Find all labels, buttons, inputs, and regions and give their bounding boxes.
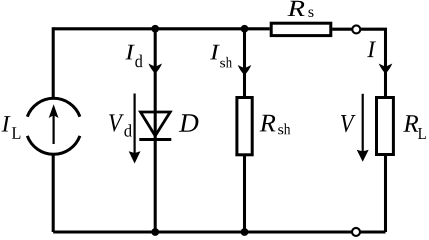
label Rsh: [260, 115, 291, 135]
wire left vertical (source bottom to bottom corner): [52, 155, 55, 232]
wire diode branch vertical: [154, 29, 157, 232]
wire from Rs to top terminal and right corner down to RL: [332, 29, 385, 97]
wire Rsh branch bottom: [243, 155, 246, 232]
resistor Rsh box: [237, 98, 252, 155]
current source IL circle arcs: [27, 98, 80, 154]
wire Rsh branch top: [243, 29, 246, 97]
current arrow I on right branch: [379, 64, 393, 74]
current source arrow (up): [49, 104, 59, 144]
wire top from left corner to Rs: [53, 27, 270, 30]
label D (diode): [179, 114, 198, 131]
label IL: [2, 116, 21, 139]
diode D triangle: [141, 112, 171, 136]
junction dot top Rsh node: [241, 25, 249, 33]
wire bottom from left corner to right corner: [53, 230, 385, 233]
terminal open circle top right: [352, 25, 360, 33]
label Id: [125, 45, 142, 68]
wire left vertical (corner to source top): [52, 27, 55, 98]
voltage arrow Vd (down): [129, 94, 141, 164]
junction dot top diode node: [151, 25, 159, 33]
current arrow Ish on Rsh branch: [238, 65, 252, 75]
current arrow Id on diode branch: [148, 64, 162, 74]
terminal open circle bottom right: [352, 228, 360, 236]
resistor RL box: [377, 98, 394, 155]
label Vd: [109, 114, 132, 136]
wire right vertical RL bottom to bottom corner: [384, 155, 387, 232]
label Ish: [210, 45, 232, 68]
voltage arrow V (down): [357, 94, 369, 162]
junction dot bottom diode node: [151, 228, 159, 236]
label V: [341, 115, 356, 132]
junction dot bottom Rsh node: [241, 228, 249, 236]
label I: [367, 42, 376, 58]
diode D cathode bar: [139, 138, 171, 141]
label Rs: [287, 1, 313, 17]
label RL: [403, 115, 426, 139]
resistor Rs box: [271, 23, 331, 35]
